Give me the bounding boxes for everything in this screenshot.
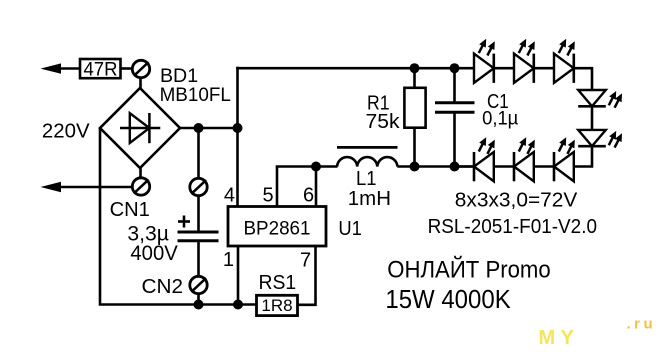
svg-text:RS1: RS1 <box>259 272 297 294</box>
wire <box>534 165 554 168</box>
wire <box>534 67 554 70</box>
LED D2 <box>514 39 535 83</box>
diode inside BD1 <box>120 113 160 143</box>
wire pin 6 <box>315 167 318 208</box>
wire pad to capacitor C2 <box>197 196 200 231</box>
svg-text:47R: 47R <box>84 60 118 81</box>
mains input arrow top <box>41 63 81 73</box>
IC U1 BP2861 <box>228 207 326 247</box>
LED D3 <box>554 39 575 83</box>
wire 47R to input pad <box>121 67 133 70</box>
svg-text:BP2861: BP2861 <box>244 218 311 240</box>
bridge rectifier BD1 diamond <box>100 88 180 168</box>
svg-text:.ru: .ru <box>627 316 657 333</box>
svg-text:CN1: CN1 <box>110 198 150 221</box>
LED D8 <box>474 137 495 181</box>
junction node <box>311 162 321 172</box>
wire bottom right corner <box>574 146 592 166</box>
wire <box>494 165 514 168</box>
junction node <box>410 162 420 172</box>
wire <box>494 67 514 70</box>
wire <box>453 165 474 168</box>
wire plus node down to pad <box>197 128 200 178</box>
LED D4 <box>578 90 622 108</box>
LED D6 <box>554 137 575 181</box>
junction node <box>233 300 243 310</box>
wire pin 5 <box>276 167 279 208</box>
capacitor C2 3,3u 400V <box>178 232 219 241</box>
svg-text:RSL-2051-F01-V2.0: RSL-2051-F01-V2.0 <box>428 215 597 238</box>
wire pin5/pin6 node to inductor <box>276 165 338 168</box>
svg-text:15W 4000K: 15W 4000K <box>385 284 511 314</box>
svg-text:1R8: 1R8 <box>261 296 292 315</box>
pad CN2 <box>190 276 207 293</box>
pad CN1 <box>132 178 149 195</box>
svg-text:U1: U1 <box>338 218 362 240</box>
svg-text:1: 1 <box>223 249 234 271</box>
wire RS1 to pin 7 <box>298 246 316 305</box>
svg-text:ОНЛАЙТ Promo: ОНЛАЙТ Promo <box>387 256 550 284</box>
wire bridge bottom to CN1 pad <box>139 168 142 178</box>
wire <box>591 106 594 130</box>
svg-text:220V: 220V <box>42 120 90 143</box>
svg-text:CN2: CN2 <box>142 275 184 298</box>
resistor R1 <box>404 68 425 167</box>
junction node <box>194 300 204 310</box>
junction node <box>233 123 243 133</box>
LED D5 <box>578 130 622 148</box>
wire bridge plus output <box>180 127 239 130</box>
mains input arrow bottom <box>41 182 133 192</box>
resistor 47R <box>80 59 121 78</box>
svg-text:1mH: 1mH <box>348 187 391 210</box>
wire CN2 pad to bottom rail <box>197 294 200 306</box>
wire top right corner <box>574 68 592 91</box>
svg-text:7: 7 <box>300 250 311 272</box>
inductor L1 coil <box>337 157 397 166</box>
junction node <box>194 123 204 133</box>
wire pin 1 to rail <box>237 246 240 306</box>
svg-text:75k: 75k <box>366 111 401 133</box>
wire bridge minus to bottom rail <box>100 128 257 305</box>
wire capacitor C2 to pad CN2 <box>197 242 200 276</box>
wire top bus <box>236 67 474 70</box>
capacitor C1 <box>435 68 475 167</box>
svg-text:6: 6 <box>303 185 314 207</box>
resistor RS1 <box>257 295 298 315</box>
junction node <box>410 63 420 73</box>
svg-text:Y: Y <box>561 327 575 349</box>
plus polarity sign <box>178 216 190 228</box>
svg-text:400V: 400V <box>130 242 177 265</box>
LED D1 <box>474 39 495 83</box>
wire L1 to output node <box>397 165 474 168</box>
inductor L1 core bar <box>337 146 398 149</box>
wire VIN vertical to pin 4 <box>236 67 239 207</box>
svg-text:4: 4 <box>224 185 235 207</box>
input pad (solder terminal) <box>132 60 149 77</box>
svg-text:M: M <box>539 327 556 349</box>
svg-text:MB10FL: MB10FL <box>160 84 231 106</box>
pad (board link) <box>190 178 207 195</box>
svg-text:0,1µ: 0,1µ <box>482 109 518 130</box>
junction node <box>450 162 460 172</box>
junction node <box>450 63 460 73</box>
wire pad to bridge top vertex <box>139 78 142 89</box>
LED D7 <box>514 137 535 181</box>
svg-text:8x3x3,0=72V: 8x3x3,0=72V <box>455 189 578 212</box>
svg-text:5: 5 <box>263 185 274 207</box>
